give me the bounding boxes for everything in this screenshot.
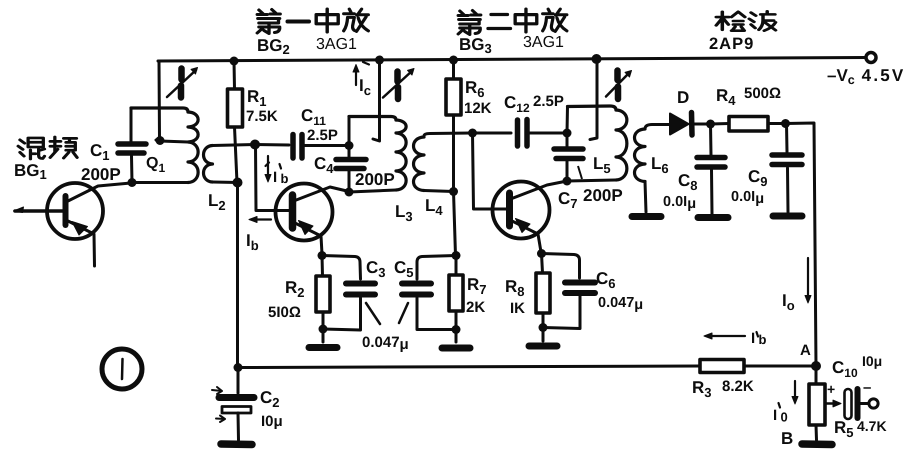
wire BG2 collector: [291, 187, 349, 202]
ground C8: [698, 214, 728, 221]
svg-text:2AP9: 2AP9: [709, 35, 754, 53]
wire C6 top loop: [542, 254, 580, 279]
svg-text:–: –: [863, 379, 871, 396]
node A: [811, 361, 821, 371]
svg-text:C2: C2: [260, 388, 280, 410]
svg-text:Ic: Ic: [359, 76, 371, 98]
svg-text:C10: C10: [832, 358, 858, 380]
node R7 bottom: [452, 325, 461, 334]
pointer slash C5 value: [399, 303, 408, 323]
node R4 right / C9 top: [781, 119, 790, 128]
wire L3 bottom edge: [349, 190, 396, 192]
svg-text:200P: 200P: [583, 186, 623, 205]
pointer slash C7: [578, 166, 582, 179]
wire C12 to L5 node: [526, 132, 567, 135]
node L2 bottom / R1 bottom: [233, 178, 243, 188]
svg-text:C4: C4: [314, 154, 334, 176]
node R2 bottom: [319, 325, 328, 334]
wire T1 mid tap edge: [160, 141, 188, 142]
svg-text:200P: 200P: [81, 165, 121, 184]
svg-text:0.0Iμ: 0.0Iμ: [731, 189, 764, 207]
svg-text:C8: C8: [678, 171, 698, 193]
node C4 bottom / BG2 collector: [345, 188, 354, 197]
node C4 top: [345, 141, 354, 150]
node C8 top: [706, 120, 715, 129]
wire L2 bottom edge: [213, 181, 238, 185]
wire BG1 emitter: [66, 220, 95, 266]
svg-text:200P: 200P: [355, 170, 395, 189]
inductor L5 (T3 primary): [568, 106, 617, 110]
svg-text:500Ω: 500Ω: [744, 85, 781, 102]
svg-text:BG3: BG3: [459, 35, 492, 56]
node R8 bottom: [539, 323, 548, 332]
resistor R1: [233, 61, 237, 89]
node BG2 emitter: [318, 251, 327, 260]
wire C2 top lead: [237, 368, 240, 394]
wire L4 bottom to R7: [454, 192, 456, 256]
wire C8 bottom lead: [710, 170, 714, 214]
wire L6 top lead to diode: [645, 125, 669, 130]
svg-text:2.5P: 2.5P: [307, 127, 338, 144]
capacitor C12: [518, 120, 528, 147]
svg-text:R3: R3: [692, 378, 712, 400]
resistor R7: [455, 256, 458, 276]
arrow BG1 emitter (PNP into base): [72, 222, 88, 236]
arrow BG2 emitter: [299, 221, 314, 235]
wire C10 to terminal: [860, 402, 868, 405]
wire R2 to ground: [322, 329, 325, 342]
node C7 bottom / BG3 collector: [563, 177, 572, 186]
node BG3 emitter: [537, 249, 546, 258]
arrow Io down: [807, 258, 809, 297]
wire left long vertical (L2 bottom to bottom rail): [236, 183, 239, 368]
capacitor CT2 variable trimmer over T2: [394, 72, 401, 100]
resistor R6: [452, 60, 455, 79]
svg-text:C12: C12: [504, 93, 530, 115]
svg-text:I: I: [773, 407, 777, 424]
node C1 bottom: [128, 178, 137, 187]
arrow Ib left (lower): [256, 218, 271, 220]
svg-text:0.0Iμ: 0.0Iμ: [663, 194, 696, 212]
svg-text:R6: R6: [465, 78, 485, 100]
wire L6 bottom lead: [645, 182, 646, 213]
capacitor CT1 variable trimmer over T1: [178, 69, 185, 98]
wire C2 bottom lead: [237, 413, 241, 440]
inductor L3 (T2 primary): [349, 117, 396, 121]
svg-text:I0μ: I0μ: [261, 413, 283, 430]
svg-text:C6: C6: [596, 269, 616, 291]
capacitor C3: [346, 284, 375, 295]
svg-text:BG1: BG1: [14, 161, 47, 182]
svg-text:R5: R5: [834, 418, 854, 440]
wire node to right corner and down to A: [786, 123, 817, 366]
wire BG3 emitter: [508, 219, 541, 252]
wire BG1 collector: [66, 183, 131, 202]
svg-text:3AG1: 3AG1: [523, 34, 564, 51]
capacitor C7: [554, 149, 583, 159]
wire BG3 collector: [508, 181, 567, 200]
node T3 tap on rail: [592, 54, 602, 64]
svg-text:b: b: [759, 332, 767, 347]
resistor R4: [729, 117, 768, 132]
ground R5: [802, 440, 832, 448]
wire node to C12: [473, 132, 512, 135]
svg-text:+: +: [827, 381, 835, 397]
svg-text:2K: 2K: [466, 299, 485, 316]
wire top supply rail: [158, 58, 866, 62]
capacitor CT3 variable trimmer over T3: [614, 71, 621, 100]
svg-text:I: I: [273, 169, 277, 186]
wire C6 bottom loop: [543, 296, 580, 329]
svg-text:L3: L3: [395, 202, 413, 224]
svg-text:12K: 12K: [464, 100, 492, 117]
wire L4 top edge: [424, 133, 472, 136]
wire diode to node: [692, 123, 710, 126]
svg-text:Io: Io: [782, 291, 795, 313]
resistor R8: [542, 254, 543, 274]
transistor BG2: [276, 184, 333, 241]
svg-text:D: D: [677, 88, 689, 107]
capacitor C6: [565, 283, 595, 294]
node T2 tap on rail: [375, 56, 384, 65]
wire R8 to ground: [542, 328, 545, 342]
transistor BG1: [47, 183, 103, 239]
svg-text:A: A: [800, 342, 811, 359]
wire rail corner down to T1 tap: [156, 61, 160, 140]
svg-text:B: B: [781, 429, 793, 448]
wire R4 to node: [768, 122, 785, 125]
svg-text:I: I: [751, 330, 755, 347]
inductor L6: [635, 129, 646, 182]
terminal output: [869, 399, 878, 408]
ground R7: [442, 345, 470, 352]
node BG3 base tap: [468, 129, 477, 138]
polarity mark C2 plus: [212, 387, 222, 394]
svg-text:7.5K: 7.5K: [246, 108, 278, 125]
transistor BG3: [493, 182, 550, 239]
svg-text:C7: C7: [558, 189, 578, 211]
arrow Ib down (upper): [267, 156, 269, 176]
capacitor C11: [293, 135, 302, 159]
node T1 tap: [156, 136, 165, 145]
node C2 top: [234, 363, 243, 372]
inductor L4 (T2 secondary): [414, 137, 425, 191]
diode D: [670, 114, 689, 135]
resistor R5: [815, 366, 818, 384]
node L4 bottom: [449, 187, 458, 196]
capacitor C9: [772, 155, 802, 165]
svg-text:Q1: Q1: [146, 155, 165, 175]
resistor R2: [321, 256, 325, 277]
svg-text:0.047μ: 0.047μ: [598, 295, 643, 313]
pointer slash C3 value: [366, 303, 380, 324]
wire L5 bottom edge: [567, 180, 616, 181]
wire rail R3 to node A: [744, 365, 816, 368]
svg-text:BG2: BG2: [257, 36, 290, 57]
arrow BG3 emitter: [516, 219, 531, 233]
svg-text:R2: R2: [285, 278, 305, 300]
svg-text:IK: IK: [510, 300, 525, 317]
wire L4 bottom edge: [424, 191, 454, 192]
label 混频 (mixer): [18, 138, 44, 159]
wire T2 left edge: [348, 117, 351, 193]
wire C11 to C4 top node: [302, 144, 349, 147]
ground L6: [632, 213, 661, 220]
wire C5 bottom loop: [417, 298, 456, 330]
svg-text:R4: R4: [716, 86, 736, 108]
capacitor C1: [118, 144, 146, 153]
svg-text:0: 0: [781, 410, 788, 425]
svg-text:L6: L6: [651, 154, 669, 176]
wire C5 top loop: [417, 256, 456, 280]
label 第二中放 (second IF): [458, 11, 481, 35]
arrow I0' down: [794, 381, 796, 398]
arrow Ib' left: [712, 335, 745, 337]
ground C9: [773, 213, 802, 220]
resistor R3 in bottom rail: [700, 360, 744, 373]
wire T3 left edge: [566, 107, 570, 182]
svg-text:R1: R1: [247, 87, 267, 109]
inductor L2 secondary: [204, 146, 213, 183]
wire R7 to ground: [455, 330, 458, 343]
svg-text:C9: C9: [748, 167, 768, 189]
wire C8 top lead: [709, 124, 713, 155]
ground R2: [309, 344, 337, 351]
node R7 top: [452, 251, 461, 260]
svg-text:5I0Ω: 5I0Ω: [268, 304, 301, 321]
arrow to C10: [825, 402, 835, 405]
node R1 top on rail: [230, 57, 239, 66]
capacitor C5: [402, 284, 431, 295]
svg-text:b: b: [281, 171, 289, 186]
figure number circle 1: [102, 349, 142, 389]
capacitor C10 electrolytic: [845, 389, 852, 419]
inductor T1 primary winding: [131, 108, 188, 112]
wire C9 bottom lead: [786, 168, 790, 212]
svg-text:8.2K: 8.2K: [722, 378, 754, 395]
terminal -Vc: [866, 53, 876, 63]
arrow Ic up: [355, 71, 357, 85]
label 检波 (detector): [716, 12, 745, 31]
wire node to R4: [711, 122, 730, 126]
wire L2 top edge: [213, 145, 256, 146]
capacitor C8: [697, 158, 725, 168]
svg-text:2.5P: 2.5P: [533, 93, 564, 110]
node R6 top on rail: [449, 56, 458, 65]
svg-text:L4: L4: [425, 196, 443, 218]
svg-text:R7: R7: [467, 275, 487, 297]
wire C3 bottom loop: [323, 298, 361, 330]
svg-text:L5: L5: [593, 154, 611, 176]
capacitor C2 electrolytic: [219, 394, 254, 401]
wire BG3 base lead: [473, 133, 507, 209]
svg-text:3AG1: 3AG1: [316, 36, 357, 53]
wire C1 bottom lead: [130, 156, 134, 183]
label 第一中放 (first IF): [257, 10, 280, 34]
svg-text:C1: C1: [90, 141, 110, 163]
wire T1 left edge top: [130, 108, 133, 141]
svg-text:C5: C5: [394, 258, 414, 280]
wire T2 tap from rail: [373, 60, 380, 141]
wire node to C11: [255, 143, 289, 147]
svg-text:–Vc 4.5V: –Vc 4.5V: [827, 66, 905, 87]
wire BG2 emitter: [291, 221, 322, 254]
svg-text:Ib: Ib: [246, 231, 259, 253]
svg-text:C3: C3: [366, 258, 386, 280]
node C11 input: [250, 140, 260, 150]
ground C2: [221, 440, 252, 448]
svg-text:I0μ: I0μ: [862, 353, 882, 369]
wire T1 bottom edge: [133, 181, 188, 184]
svg-text:L2: L2: [208, 191, 226, 213]
wire bottom rail left of R3: [238, 366, 701, 368]
wire BG1 base lead: [15, 209, 64, 213]
ground R8: [529, 343, 557, 350]
wire C9 top lead: [785, 124, 789, 153]
svg-text:0.047μ: 0.047μ: [362, 334, 409, 353]
capacitor C4: [336, 160, 366, 169]
wire C3 top loop: [322, 256, 361, 280]
wire BG2 base lead: [256, 145, 290, 211]
node L5 left top (C12 arrival): [563, 129, 572, 138]
svg-text:R8: R8: [505, 277, 525, 299]
svg-text:4.7K: 4.7K: [857, 418, 887, 434]
svg-text:C11: C11: [301, 106, 326, 128]
wire T3 tap from rail: [590, 59, 597, 140]
